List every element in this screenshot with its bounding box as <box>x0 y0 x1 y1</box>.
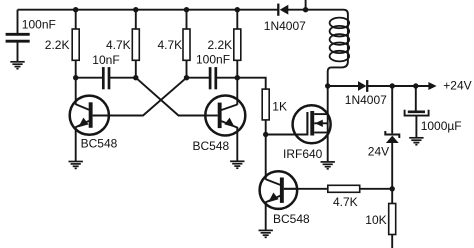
wire MOSFET source down to ground <box>327 133 329 162</box>
resistor R1 2.2K <box>72 29 79 60</box>
wire Q2 emitter to ground <box>236 127 238 161</box>
wire gate node to MOSFET gate <box>266 134 308 136</box>
svg-text:1000µF: 1000µF <box>421 119 462 133</box>
wire R1 bottom <box>75 60 77 77</box>
inductor L1 coil <box>330 18 350 62</box>
wire Q3 base to R6 <box>284 188 328 190</box>
svg-text:2.2K: 2.2K <box>45 38 70 52</box>
node V+ dot <box>303 7 308 12</box>
wire node N1 to D2 anode <box>328 85 359 87</box>
wire output cap to ground <box>415 117 417 138</box>
ground G5 output cap <box>409 138 423 145</box>
ground G4 Q3 emitter <box>259 230 273 237</box>
wire R3 top <box>186 10 188 29</box>
ground G0 input cap <box>10 62 24 69</box>
svg-text:100nF: 100nF <box>22 17 56 31</box>
capacitor C4 1000uF electrolytic <box>405 110 429 116</box>
node C2 dot <box>184 75 189 80</box>
svg-text:10nF: 10nF <box>92 53 119 67</box>
ground G2 Q2 emitter <box>230 161 244 168</box>
svg-text:1N4007: 1N4007 <box>264 19 306 33</box>
svg-text:BC548: BC548 <box>273 212 310 226</box>
svg-text:+24V: +24V <box>443 78 471 92</box>
node C dot <box>184 7 189 12</box>
node B dot <box>133 7 138 12</box>
diode D1 1N4007 top <box>278 4 288 16</box>
transistor Q2 BC548 <box>205 96 245 136</box>
resistor R3 4.7K <box>183 29 190 60</box>
wire zener branch top <box>391 86 393 133</box>
wire R7 10K bottom off canvas <box>391 235 393 248</box>
node zener-top dot <box>390 83 395 88</box>
wire R5 1K bottom to gate node <box>265 120 267 135</box>
node gate dot <box>263 132 268 137</box>
resistor R4 2.2K <box>234 29 241 60</box>
capacitor C3 100nF <box>210 67 216 89</box>
wire Q2 collector <box>236 78 238 105</box>
wire top rail left segment <box>18 9 278 11</box>
wire Q1 collector <box>75 78 77 105</box>
wire Q3 emitter to ground <box>265 202 267 230</box>
wire input cap branch <box>17 10 19 34</box>
svg-text:1N4007: 1N4007 <box>345 93 387 107</box>
transistor Q1 BC548 <box>70 96 109 135</box>
wire R1 top <box>75 10 77 29</box>
MOSFET Q4 IRF640 <box>293 105 331 143</box>
wire cross-coupling diagonal node C to Q1 base <box>109 78 187 116</box>
wire R3 bottom <box>186 60 188 77</box>
svg-text:2.2K: 2.2K <box>208 38 233 52</box>
svg-text:BC548: BC548 <box>81 136 118 150</box>
wire node C to C3 left plate <box>187 77 210 79</box>
ground G1 Q1 emitter <box>69 162 83 169</box>
wire gate node down to Q3 collector <box>265 135 267 180</box>
node B2 dot <box>133 75 138 80</box>
svg-text:IRF640: IRF640 <box>283 147 323 161</box>
wire node N2 to R7 10K top <box>391 189 393 204</box>
zener diode D3 24V <box>385 131 399 143</box>
wire C3 right plate to node D <box>217 77 238 79</box>
capacitor C1 100nF input <box>6 34 30 41</box>
svg-text:4.7K: 4.7K <box>333 195 358 209</box>
resistor R6 4.7K horizontal <box>328 185 360 192</box>
svg-text:4.7K: 4.7K <box>106 38 131 52</box>
resistor R2 4.7K <box>132 29 139 60</box>
svg-text:1K: 1K <box>272 100 287 114</box>
diode D2 1N4007 output <box>358 80 367 92</box>
svg-text:10K: 10K <box>365 213 386 227</box>
wire D2 cathode to output arrow <box>368 85 429 87</box>
wire R4 top <box>236 10 238 29</box>
wire R2 bottom <box>135 60 137 77</box>
transistor Q3 BC548 <box>260 171 298 209</box>
node A2 dot <box>73 75 78 80</box>
wire zener to node N2 <box>391 143 393 189</box>
node A dot <box>73 7 78 12</box>
wire output cap branch <box>415 86 417 111</box>
wire MOSFET drain up to node N1 <box>327 86 329 114</box>
wire Q1 emitter to ground <box>75 127 77 161</box>
wire node A to C2 left plate <box>76 77 103 79</box>
wire top rail right of D1 with corner into coil <box>288 10 348 86</box>
resistor R7 10K <box>389 204 396 235</box>
wire stub up at node V+ <box>305 0 307 10</box>
node N1 dot <box>325 83 330 88</box>
node cap-top dot <box>413 83 418 88</box>
output arrow +24V <box>428 82 436 90</box>
node D2 dot <box>235 75 240 80</box>
wire R2 top <box>135 10 137 29</box>
node N2 dot <box>390 186 395 191</box>
svg-text:4.7K: 4.7K <box>158 38 183 52</box>
wire node D to R5 1K top <box>237 78 265 89</box>
ground G3 MOSFET source <box>321 162 335 169</box>
node D dot <box>235 7 240 12</box>
wire R4 bottom <box>236 60 238 77</box>
resistor R5 1K <box>262 89 269 120</box>
wire C2 right plate to node B <box>110 77 136 79</box>
wire R6 to node N2 <box>360 188 393 190</box>
capacitor C2 10nF <box>103 67 109 89</box>
svg-text:BC548: BC548 <box>193 139 230 153</box>
svg-text:24V: 24V <box>368 144 389 158</box>
wire cross-coupling diagonal node B to Q2 base <box>136 78 206 116</box>
svg-text:100nF: 100nF <box>196 52 230 66</box>
